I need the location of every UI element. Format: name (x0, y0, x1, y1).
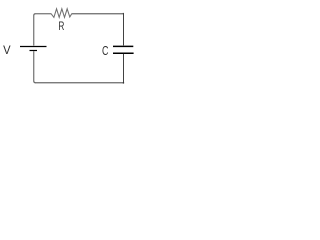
svg-text:C: C (102, 45, 109, 59)
wire: right vertical upper (123, 14, 125, 46)
capacitor C top plate (113, 45, 133, 47)
capacitor C bottom plate (113, 52, 134, 54)
wire: left vertical upper (33, 16, 35, 46)
node: top-right corner (123, 13, 124, 14)
wire: left vertical lower (33, 51, 35, 81)
wire: top right segment (72, 13, 124, 15)
svg-text:R: R (58, 21, 64, 34)
svg-text:V: V (3, 43, 11, 57)
wire: top left segment (36, 13, 52, 15)
battery V short plate (30, 50, 38, 52)
battery V long plate (20, 46, 47, 48)
wire: bottom-left corner arc (34, 81, 36, 83)
wire: right vertical lower (123, 54, 125, 84)
wire: top-left corner arc (34, 14, 36, 16)
wire: bottom segment (35, 82, 123, 84)
node: bottom-right corner (123, 82, 124, 84)
resistor R zigzag (51, 9, 72, 18)
